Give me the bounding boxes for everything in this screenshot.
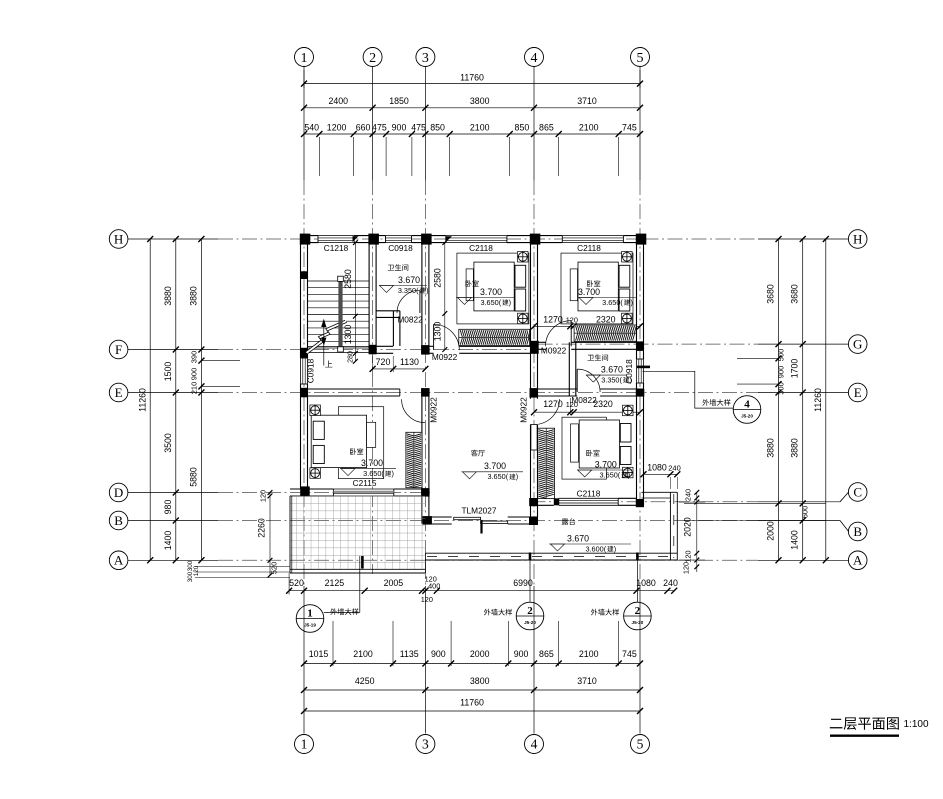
svg-text:11760: 11760 xyxy=(460,698,484,708)
bedroom2 bed xyxy=(578,262,618,311)
svg-text:520: 520 xyxy=(270,562,279,575)
svg-text:865: 865 xyxy=(539,122,554,132)
svg-text:120: 120 xyxy=(566,400,578,409)
svg-text:240: 240 xyxy=(684,489,693,501)
svg-text:): ) xyxy=(630,298,632,307)
axis line 4 vertical xyxy=(533,67,535,181)
interior wall along axis G (bedroom1 south, axis3-4) xyxy=(429,345,434,347)
svg-text:1:100: 1:100 xyxy=(903,719,928,730)
svg-text:5: 5 xyxy=(637,737,644,752)
axis line F horizontal xyxy=(128,349,218,351)
window C0918 in H wall xyxy=(386,236,412,243)
svg-text:3710: 3710 xyxy=(577,676,597,686)
bedroom2 nightstands xyxy=(622,252,633,263)
svg-text:): ) xyxy=(628,470,630,479)
callout3 section mark xyxy=(636,553,639,561)
columns on axis D row xyxy=(300,486,310,496)
svg-text:4: 4 xyxy=(744,398,750,410)
svg-text:J5-20: J5-20 xyxy=(632,620,644,625)
left extension stubs F area xyxy=(201,360,240,362)
axis line A horizontal xyxy=(128,559,218,561)
exterior wall along axis H xyxy=(301,235,319,237)
svg-text:980: 980 xyxy=(163,500,173,515)
svg-text:G: G xyxy=(853,337,862,352)
svg-text:120: 120 xyxy=(421,595,433,604)
bedroom2 pillows xyxy=(619,265,630,287)
stair up arrow xyxy=(323,321,325,366)
terrace dim 1080/240 upper right xyxy=(644,473,678,475)
room label bedroom4 xyxy=(586,450,599,457)
svg-text:2020: 2020 xyxy=(683,517,693,537)
svg-text:4: 4 xyxy=(531,51,538,66)
stair break line (double with zig) xyxy=(307,321,347,353)
svg-text:3.700: 3.700 xyxy=(484,461,506,471)
column on axis1 at stair landing xyxy=(301,271,309,279)
svg-text:3880: 3880 xyxy=(790,438,800,458)
axis bubble H right xyxy=(848,230,867,249)
svg-text:120: 120 xyxy=(684,550,693,562)
callout1 leader xyxy=(324,612,360,614)
axis bubble G right xyxy=(848,335,867,354)
svg-text:): ) xyxy=(509,298,511,307)
bedroom4 dim 1270/120/2320 lower xyxy=(534,411,640,413)
svg-text:C: C xyxy=(853,484,862,499)
svg-text:475: 475 xyxy=(372,122,387,132)
wardrobe bedroom4 xyxy=(538,428,555,498)
top dim line 2400/1850/3800/3710 xyxy=(304,107,640,109)
interior wall along axis 4 (H to C/B) xyxy=(530,236,532,399)
svg-text:540: 540 xyxy=(304,122,319,132)
svg-text:2320: 2320 xyxy=(596,314,616,324)
svg-text:M0922: M0922 xyxy=(432,352,458,362)
callout1 label waiqiang dayang xyxy=(330,608,358,615)
svg-text:A: A xyxy=(853,553,863,568)
axis line 3 vertical xyxy=(424,67,426,181)
window C0918 in axis1 wall xyxy=(301,358,308,384)
wardrobe bedroom2 xyxy=(574,325,636,341)
axis bubble E left xyxy=(109,383,128,402)
svg-text:3: 3 xyxy=(422,51,429,66)
svg-text:3.700: 3.700 xyxy=(578,287,600,297)
columns on axis F/G row xyxy=(300,348,308,358)
left dim line 2 xyxy=(175,239,177,560)
detail callout 4 (J5-20) xyxy=(733,396,761,424)
bottom dim line 1 (520/2125/2005/120/400 | 6990/1080/240) xyxy=(289,590,674,592)
svg-text:C2118: C2118 xyxy=(469,243,493,253)
room label terrace xyxy=(562,518,575,525)
svg-text:500: 500 xyxy=(777,349,786,362)
room label bedroom3 xyxy=(350,448,363,455)
axis line G horizontal xyxy=(538,343,759,345)
svg-text:A: A xyxy=(114,553,124,568)
svg-text:C2118: C2118 xyxy=(577,489,601,499)
door M0922 bedroom1 leaf and arc xyxy=(433,324,435,350)
svg-text:400: 400 xyxy=(428,582,440,591)
corridor dim 720/1130 xyxy=(373,368,426,370)
interior wall along axis 2 (stair/bath) xyxy=(368,236,370,353)
svg-text:1270: 1270 xyxy=(543,314,563,324)
svg-text:475: 475 xyxy=(411,122,426,132)
svg-text:2100: 2100 xyxy=(579,649,599,659)
axis line E horizontal xyxy=(128,392,218,394)
svg-text:390: 390 xyxy=(189,351,198,364)
axis bubble E right xyxy=(848,383,867,402)
callout4 section mark xyxy=(637,366,650,369)
svg-text:5: 5 xyxy=(637,51,644,66)
svg-text:1200: 1200 xyxy=(327,122,347,132)
window C2118 in C wall xyxy=(559,498,618,505)
stair label up (shang) xyxy=(325,361,332,368)
svg-text:3.350(: 3.350( xyxy=(398,286,419,295)
axis line 5 vertical xyxy=(639,67,641,181)
axis line 1 vertical xyxy=(303,67,305,181)
axis bubble D left xyxy=(109,483,128,502)
bathroom1 partition wall vertical xyxy=(392,311,394,346)
right dim extension C and B boundaries xyxy=(684,502,826,504)
svg-text:1270: 1270 xyxy=(543,399,563,409)
svg-text:3.650(: 3.650( xyxy=(487,472,508,481)
svg-text:120: 120 xyxy=(682,562,691,574)
svg-text:3.670: 3.670 xyxy=(398,275,420,285)
svg-text:B: B xyxy=(853,524,862,539)
callout1 section mark xyxy=(361,556,364,569)
bottom dim line 3 xyxy=(304,689,640,691)
sliding door section mark xyxy=(480,520,482,534)
axis line 2 vertical xyxy=(372,67,374,181)
bedroom2 blanket fold xyxy=(570,269,577,301)
detail callout 2 (J5-20) xyxy=(516,602,544,630)
bedroom3 bed xyxy=(311,415,366,467)
svg-text:210: 210 xyxy=(189,382,198,395)
svg-text:2260: 2260 xyxy=(257,518,267,538)
svg-text:J5-20: J5-20 xyxy=(524,620,536,625)
axis bubble 1 top xyxy=(295,48,314,67)
svg-text:3.700: 3.700 xyxy=(595,459,617,469)
callout4 label waiqiang dayang xyxy=(702,399,730,406)
axis bubble F left xyxy=(109,340,128,359)
svg-text:3.650(: 3.650( xyxy=(480,298,501,307)
detail callout 3 (J5-20) xyxy=(624,602,652,630)
svg-text:1015: 1015 xyxy=(309,649,329,659)
svg-text:2005: 2005 xyxy=(384,578,404,588)
svg-text:2000: 2000 xyxy=(766,521,776,541)
svg-text:C1218: C1218 xyxy=(324,243,349,253)
svg-text:3500: 3500 xyxy=(163,433,173,453)
svg-text:D: D xyxy=(114,485,123,500)
svg-text:600: 600 xyxy=(801,506,810,519)
svg-text:1300: 1300 xyxy=(343,325,353,345)
svg-text:3.650(: 3.650( xyxy=(363,469,384,478)
terrace tiled floor bottom border xyxy=(290,568,425,570)
svg-text:J5-19: J5-19 xyxy=(304,623,316,628)
svg-text:1080: 1080 xyxy=(647,462,667,472)
svg-text:H: H xyxy=(853,231,862,246)
bathroom1 south wall xyxy=(376,310,400,312)
axis line C horizontal xyxy=(531,501,759,503)
svg-text:240: 240 xyxy=(668,463,681,472)
svg-text:M0822: M0822 xyxy=(397,315,423,325)
room label bedroom2 xyxy=(587,280,600,287)
svg-text:745: 745 xyxy=(622,122,637,132)
wardrobe bedroom3 xyxy=(406,432,422,487)
svg-text:TLM2027: TLM2027 xyxy=(461,506,496,516)
columns on axis B row xyxy=(422,516,432,525)
terrace tiled floor xyxy=(290,496,425,570)
svg-text:2320: 2320 xyxy=(593,399,613,409)
door M0922 bedroom4 leaf and arc xyxy=(531,425,537,451)
svg-text:2100: 2100 xyxy=(470,122,490,132)
title underline xyxy=(830,735,899,737)
wall along axis B (living room south) xyxy=(430,516,452,518)
svg-text:): ) xyxy=(391,469,393,478)
axis bubble B left xyxy=(109,511,128,530)
svg-text:2000: 2000 xyxy=(470,649,490,659)
room label bedroom1 xyxy=(466,280,479,287)
svg-text:3.700: 3.700 xyxy=(361,458,383,468)
bedroom3 carpet outline xyxy=(338,407,383,479)
room label bathroom2 xyxy=(587,354,608,361)
svg-text:3680: 3680 xyxy=(766,284,776,304)
left dim line 1 total 11260 xyxy=(149,239,151,560)
svg-text:3800: 3800 xyxy=(470,676,490,686)
left extension stubs below A xyxy=(195,566,290,568)
top dim line small dims xyxy=(304,133,640,135)
interior wall along axis 3 upper xyxy=(421,236,423,353)
svg-text:): ) xyxy=(614,544,616,553)
left dim line 3 xyxy=(200,239,202,560)
axis bubble C right xyxy=(848,483,867,502)
svg-text:900: 900 xyxy=(431,649,446,659)
interior wall along axis 3 lower (E to B) xyxy=(421,389,423,524)
svg-text:3880: 3880 xyxy=(188,286,198,306)
axis bubble 4 bottom xyxy=(525,735,544,754)
columns on axis C row xyxy=(529,498,537,506)
bedroom4 bed xyxy=(579,420,619,468)
axis bubble B right xyxy=(848,522,867,541)
bedroom1 blanket fold xyxy=(466,269,473,301)
svg-text:): ) xyxy=(426,286,428,295)
window jamb marker triangles xyxy=(353,236,359,242)
svg-text:3.350(: 3.350( xyxy=(601,376,622,385)
svg-text:2: 2 xyxy=(369,51,376,66)
svg-text:1300: 1300 xyxy=(433,322,443,342)
axis bubble H left xyxy=(109,230,128,249)
window C1218 in H wall xyxy=(318,236,354,243)
svg-text:120: 120 xyxy=(193,565,200,576)
exterior wall along axis 5 (right) xyxy=(636,236,638,359)
svg-text:2580: 2580 xyxy=(343,269,353,289)
svg-text:3800: 3800 xyxy=(470,96,490,106)
window C2118 in H wall (bedroom 2) xyxy=(562,236,623,243)
bedroom4 pillows xyxy=(620,424,631,443)
callout3 leader xyxy=(636,561,638,603)
svg-text:3880: 3880 xyxy=(163,286,173,306)
svg-text:745: 745 xyxy=(622,649,637,659)
bedroom3 blanket fold xyxy=(367,422,376,447)
axis bubble 5 top xyxy=(631,48,650,67)
axis line B horizontal xyxy=(128,520,218,522)
detail callout 1 (J5-19) xyxy=(296,605,324,633)
svg-text:1400: 1400 xyxy=(790,530,800,550)
svg-text:850: 850 xyxy=(515,122,530,132)
bedroom4 nightstands xyxy=(623,405,634,416)
terrace railing bottom xyxy=(425,552,677,554)
bottom dim extension lines xyxy=(332,621,334,666)
svg-text:2: 2 xyxy=(635,605,641,617)
axis bubble 3 top xyxy=(416,48,435,67)
door M0822 bathroom1 leaf and arc xyxy=(419,290,421,313)
terrace railing right xyxy=(669,492,671,560)
top dim line total 11760 xyxy=(304,83,640,85)
svg-text:1080: 1080 xyxy=(636,578,656,588)
svg-text:3.650(: 3.650( xyxy=(600,470,621,479)
svg-text:1400: 1400 xyxy=(163,531,173,551)
svg-text:1700: 1700 xyxy=(790,359,800,379)
columns on axis H xyxy=(300,234,311,245)
svg-text:1: 1 xyxy=(301,737,308,752)
room label living room xyxy=(471,450,485,457)
svg-text:C0918: C0918 xyxy=(306,358,316,383)
svg-text:240: 240 xyxy=(663,578,678,588)
svg-text:900: 900 xyxy=(392,122,407,132)
window C2115 in D wall xyxy=(333,489,393,496)
callout4 leader xyxy=(643,371,734,408)
svg-text:J5-20: J5-20 xyxy=(741,414,753,419)
right dim line inner xyxy=(778,239,780,560)
svg-text:3: 3 xyxy=(422,737,429,752)
axis line D horizontal xyxy=(128,492,218,494)
terrace railing top segment xyxy=(642,491,678,493)
stair center rail xyxy=(338,278,342,352)
svg-text:120: 120 xyxy=(259,490,268,502)
svg-text:C2118: C2118 xyxy=(577,243,601,253)
svg-text:5880: 5880 xyxy=(188,467,198,487)
svg-text:120: 120 xyxy=(566,315,578,324)
svg-text:3710: 3710 xyxy=(577,96,597,106)
bathroom2 west wall xyxy=(568,342,570,396)
top dim extension lines xyxy=(318,137,320,176)
svg-text:280: 280 xyxy=(347,351,354,363)
axis bubble 1 bottom xyxy=(295,735,314,754)
svg-text:3.600(: 3.600( xyxy=(585,544,606,553)
svg-text:C2115: C2115 xyxy=(353,478,377,488)
axis bubble 3 bottom xyxy=(416,735,435,754)
svg-text:2400: 2400 xyxy=(329,96,349,106)
axis bubble 5 bottom xyxy=(631,735,650,754)
svg-text:4: 4 xyxy=(531,737,538,752)
svg-text:11260: 11260 xyxy=(813,388,823,412)
terrace tiled floor left border xyxy=(289,496,291,573)
svg-text:2: 2 xyxy=(527,605,533,617)
right dim line mid xyxy=(802,239,804,560)
bedroom2 dim 1270/120/2320 upper xyxy=(534,325,640,327)
wall along axis E xyxy=(301,388,400,390)
svg-text:900: 900 xyxy=(189,368,198,381)
axis bubble 2 top xyxy=(363,48,382,67)
svg-text:F: F xyxy=(115,342,122,357)
bedroom2 carpet outline xyxy=(561,253,633,324)
svg-text:H: H xyxy=(114,231,123,246)
svg-text:M0922: M0922 xyxy=(541,346,567,356)
svg-text:M0922: M0922 xyxy=(429,397,439,423)
bottom dim line 4 total 11760 xyxy=(304,710,640,712)
svg-text:11260: 11260 xyxy=(138,388,148,412)
svg-text:3.670: 3.670 xyxy=(567,533,589,543)
svg-text:1: 1 xyxy=(307,607,313,619)
wall along axis C (bedroom4 south) xyxy=(538,497,554,499)
svg-text:3.700: 3.700 xyxy=(480,287,502,297)
svg-text:3680: 3680 xyxy=(790,284,800,304)
door M0922 bedroom3 arc xyxy=(402,399,425,422)
svg-text:3.650(: 3.650( xyxy=(602,298,623,307)
svg-text:660: 660 xyxy=(356,122,371,132)
door M0822 bathroom2 leaf and arc xyxy=(576,369,578,392)
svg-text:520: 520 xyxy=(289,578,304,588)
bedroom3 nightstands xyxy=(310,405,321,416)
window C0918 in axis5 wall (bathroom2) xyxy=(637,359,644,383)
bedroom1 interior dim 2580/1300 xyxy=(444,243,446,350)
exterior wall along axis 1 (left) xyxy=(300,236,302,358)
stair landing edge at F xyxy=(308,346,370,348)
svg-text:M0922: M0922 xyxy=(519,397,529,423)
bottom dim line 2 xyxy=(304,663,640,665)
bedroom1 bed xyxy=(474,262,514,311)
columns on axis E row xyxy=(300,388,308,398)
svg-text:1135: 1135 xyxy=(400,649,419,659)
bedroom1 nightstands xyxy=(518,252,529,263)
bedroom4 carpet outline xyxy=(562,417,606,479)
bedroom1 carpet outline xyxy=(457,253,529,324)
svg-text:3.670: 3.670 xyxy=(601,365,623,375)
stair interior dim 2580/1300/280 xyxy=(354,243,356,362)
bedroom3 pillows xyxy=(313,421,324,439)
terrace dim right side 240/2020/120/120 xyxy=(696,492,698,572)
svg-text:1: 1 xyxy=(301,51,308,66)
wall along axis D (bedroom3 south) xyxy=(290,488,333,490)
axis bubble 4 top xyxy=(525,48,544,67)
sliding door TLM2027 leaves xyxy=(454,517,481,519)
svg-text:300: 300 xyxy=(187,571,194,582)
interior wall along axis G (bedroom2 south, axis4-5) xyxy=(538,341,546,343)
callout2 leader xyxy=(529,561,531,603)
svg-text:1130: 1130 xyxy=(400,357,419,367)
svg-text:2580: 2580 xyxy=(433,268,443,288)
svg-text:C0918: C0918 xyxy=(388,243,413,253)
svg-text:E: E xyxy=(854,385,862,400)
right extension stubs G-E xyxy=(737,357,779,359)
wardrobe bedroom1 xyxy=(459,329,530,345)
title erceng pingmiantu (second floor plan) xyxy=(830,717,899,730)
svg-text:720: 720 xyxy=(376,357,391,367)
svg-text:2100: 2100 xyxy=(579,122,599,132)
svg-text:1850: 1850 xyxy=(389,96,409,106)
callout3 label waiqiang dayang xyxy=(591,609,619,616)
axis bubble A left xyxy=(109,551,128,570)
callout2 section mark xyxy=(529,553,532,561)
svg-text:900: 900 xyxy=(514,649,529,659)
svg-text:1500: 1500 xyxy=(163,362,173,382)
bedroom1 pillows xyxy=(515,265,526,287)
callout2 label waiqiang dayang xyxy=(484,609,512,616)
svg-text:E: E xyxy=(115,385,123,400)
window C2118 in H wall (bedroom 1) xyxy=(446,236,507,243)
svg-text:4250: 4250 xyxy=(355,676,375,686)
svg-text:2125: 2125 xyxy=(325,578,345,588)
interior wall along axis F (corridor north) xyxy=(376,345,393,347)
axis bubble A right xyxy=(848,551,867,570)
svg-text:850: 850 xyxy=(430,122,445,132)
svg-text:865: 865 xyxy=(539,649,554,659)
